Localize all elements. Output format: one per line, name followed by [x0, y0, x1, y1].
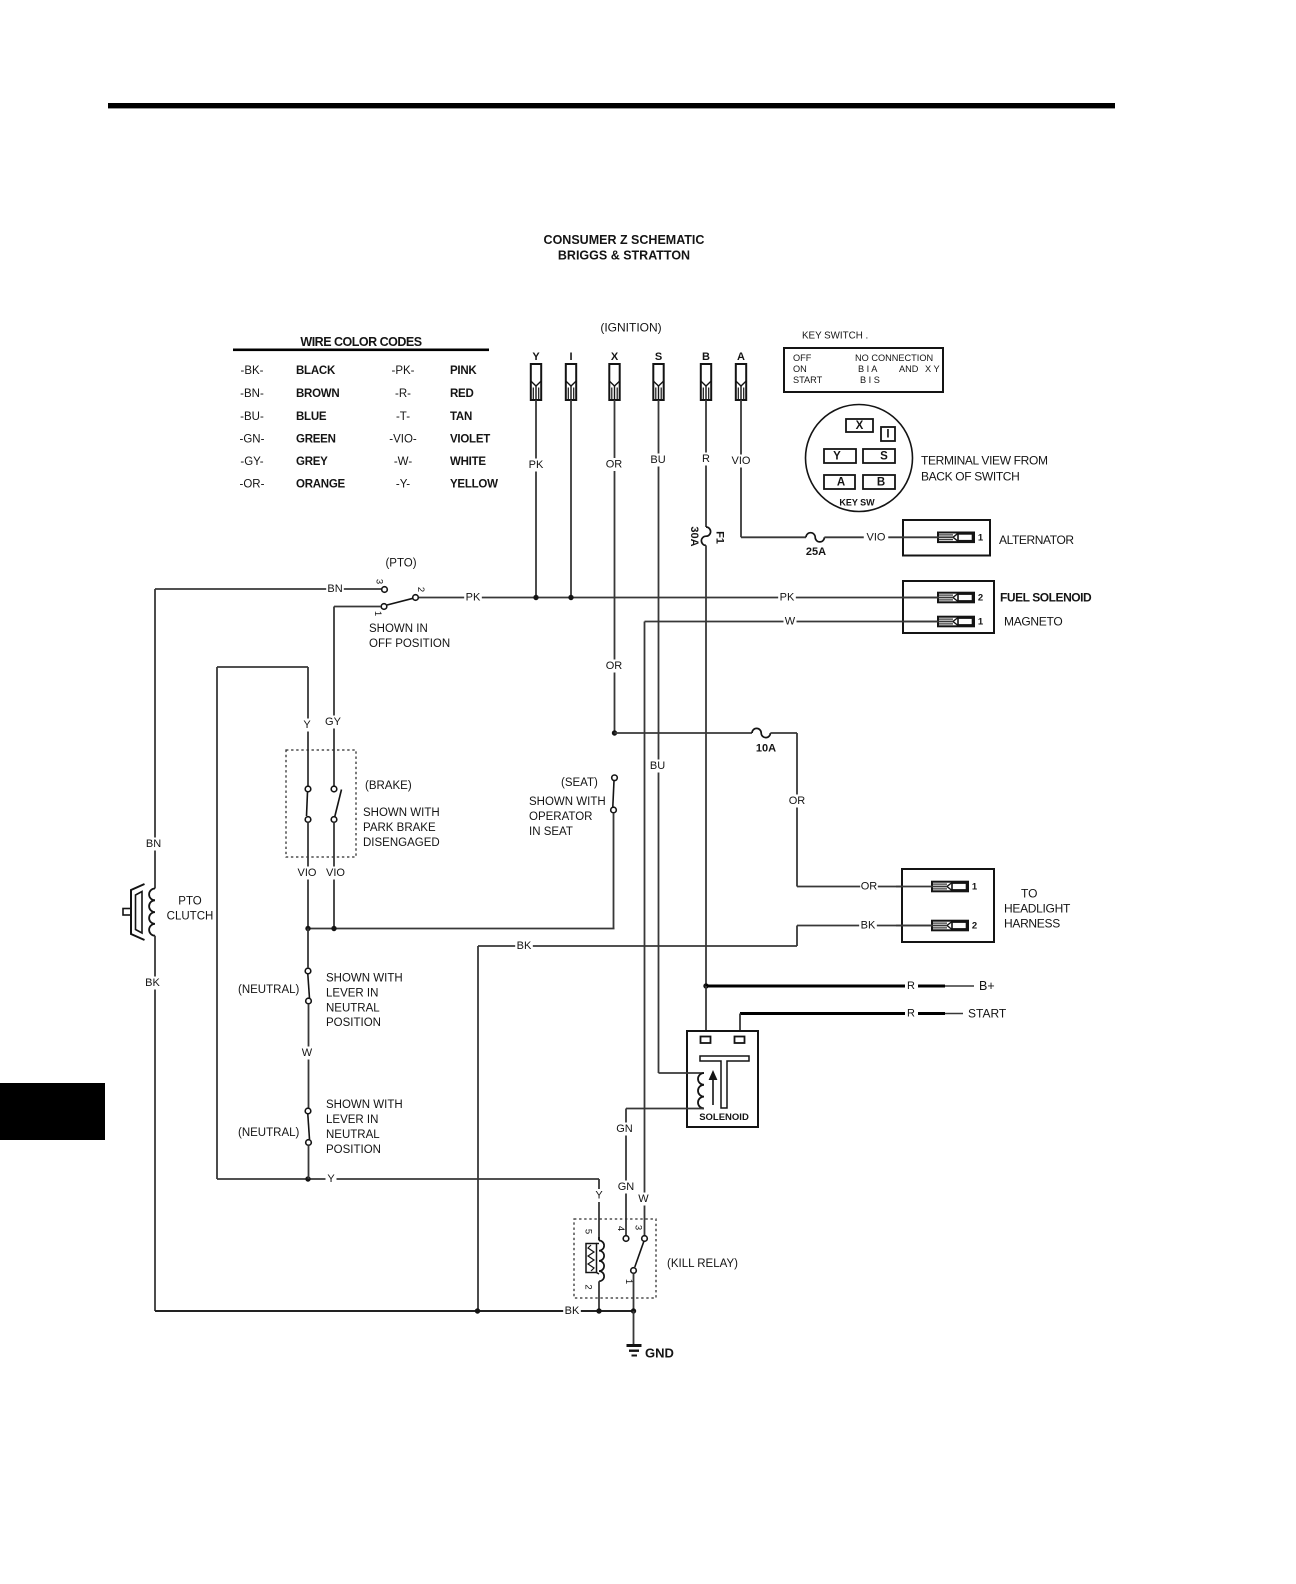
svg-text:B+: B+	[979, 979, 995, 993]
junction dot BK / kill relay switch	[631, 1308, 636, 1313]
junction dot OR branch	[612, 730, 617, 735]
svg-text:(KILL RELAY): (KILL RELAY)	[667, 1258, 738, 1270]
svg-text:10A: 10A	[756, 743, 776, 755]
wire BK riser down to bottom	[477, 946, 479, 1311]
key switch terminal view circle	[806, 405, 913, 512]
svg-text:START: START	[968, 1007, 1007, 1021]
key switch position table	[784, 348, 943, 392]
kill relay switch	[623, 1225, 647, 1284]
svg-text:BRIGGS & STRATTON: BRIGGS & STRATTON	[558, 249, 690, 263]
PTO clutch armature	[123, 884, 145, 940]
svg-text:LEVER IN: LEVER IN	[326, 988, 378, 1000]
legend row -BK- BLACK / -PK- PINK	[241, 365, 478, 377]
svg-text:I: I	[569, 351, 572, 363]
kill relay dotted box	[574, 1219, 656, 1298]
label TO HEADLIGHT HARNESS	[1004, 887, 1071, 931]
svg-text:2: 2	[415, 587, 426, 592]
label KEY SWITCH	[802, 331, 868, 342]
svg-text:BN: BN	[146, 838, 161, 850]
svg-text:BK: BK	[145, 977, 160, 989]
svg-text:BLACK: BLACK	[296, 365, 336, 377]
label (NEUTRAL) upper	[238, 984, 300, 996]
label (NEUTRAL) lower	[238, 1127, 300, 1139]
svg-text:Y: Y	[327, 1173, 335, 1185]
svg-text:SHOWN WITH: SHOWN WITH	[326, 1099, 403, 1111]
svg-text:LEVER IN: LEVER IN	[326, 1114, 378, 1126]
svg-text:VIO: VIO	[732, 455, 751, 467]
svg-text:-OR-: -OR-	[240, 479, 265, 491]
svg-text:S: S	[655, 351, 662, 363]
wire OR from fuse 10A to corner	[770, 732, 797, 734]
legend row -GN- GREEN / -VIO- VIOLET	[240, 434, 491, 446]
wire VIO junction horizontal	[308, 928, 615, 930]
svg-text:MAGNETO: MAGNETO	[1004, 615, 1062, 629]
svg-text:BU: BU	[650, 454, 665, 466]
magneto terminal 1	[902, 617, 984, 628]
wire OR into headlight terminal 1	[797, 880, 932, 893]
kill relay coil	[583, 1229, 605, 1311]
svg-text:NO CONNECTION: NO CONNECTION	[855, 353, 933, 363]
svg-text:TAN: TAN	[450, 411, 472, 423]
junction dot Y / neutral chain	[305, 1176, 310, 1181]
svg-text:IN SEAT: IN SEAT	[529, 826, 573, 838]
junction dot BK / kill relay coil	[596, 1308, 601, 1313]
svg-text:W: W	[785, 616, 796, 628]
svg-text:-W-: -W-	[394, 456, 412, 468]
svg-text:B I A: B I A	[858, 364, 878, 374]
svg-text:-GY-: -GY-	[240, 456, 263, 468]
svg-text:I: I	[886, 429, 889, 441]
svg-text:NEUTRAL: NEUTRAL	[326, 1003, 380, 1015]
svg-text:3: 3	[374, 579, 385, 584]
svg-text:-R-: -R-	[395, 388, 411, 400]
svg-text:OR: OR	[606, 459, 623, 471]
svg-text:TO: TO	[1021, 887, 1037, 901]
svg-text:(NEUTRAL): (NEUTRAL)	[238, 1127, 300, 1139]
wire START down to solenoid terminal S	[739, 1014, 741, 1037]
svg-text:5: 5	[583, 1229, 594, 1234]
svg-text:BROWN: BROWN	[296, 388, 339, 400]
svg-text:GREY: GREY	[296, 456, 328, 468]
headlight terminal 2	[896, 921, 977, 932]
terminal I	[881, 427, 895, 441]
wire GN from solenoid coil	[626, 1108, 704, 1110]
svg-text:2: 2	[972, 921, 977, 932]
title CONSUMER Z SCHEMATIC / BRIGGS &amp; STRATTON	[544, 233, 705, 263]
label PTO CLUTCH	[167, 896, 214, 923]
svg-text:PK: PK	[529, 459, 544, 471]
wire OR from connector X down	[605, 400, 623, 733]
label GND	[645, 1346, 674, 1361]
legend row -OR- ORANGE / -Y- YELLOW	[240, 479, 499, 491]
svg-text:BK: BK	[565, 1305, 580, 1317]
junction dot PK / connector Y	[533, 595, 538, 600]
svg-text:OFF: OFF	[793, 353, 812, 363]
label SOLENOID	[699, 1112, 749, 1123]
wire VIO from fuse to alternator	[824, 531, 938, 544]
svg-text:GN: GN	[616, 1123, 633, 1135]
svg-text:CONSUMER Z SCHEMATIC: CONSUMER Z SCHEMATIC	[544, 233, 705, 247]
label TERMINAL VIEW FROM BACK OF SWITCH	[921, 454, 1048, 484]
kill relay pin 4	[615, 1226, 629, 1241]
svg-text:1: 1	[623, 1279, 634, 1284]
wire Y loop left riser	[216, 667, 218, 1179]
wire BK corner down	[796, 926, 798, 947]
label SHOWN WITH LEVER IN NEUTRAL POSITION lower	[326, 1099, 403, 1156]
svg-text:3: 3	[633, 1225, 644, 1230]
brake switch right pole	[331, 786, 341, 822]
svg-text:W: W	[638, 1193, 649, 1205]
wire VIO horizontal to fuse 25A	[741, 536, 806, 538]
svg-text:SHOWN WITH: SHOWN WITH	[363, 807, 440, 819]
label (KILL RELAY)	[667, 1258, 738, 1270]
junction dot PK / connector I	[568, 595, 573, 600]
PTO clutch coil	[149, 888, 155, 935]
wire R to B+ terminal	[706, 980, 974, 992]
wire BK from headlight terminal 2	[797, 919, 932, 932]
svg-text:GND: GND	[645, 1346, 674, 1361]
svg-text:START: START	[793, 375, 823, 385]
svg-text:BN: BN	[327, 583, 342, 595]
svg-text:RED: RED	[450, 388, 474, 400]
wire from connector I down	[570, 400, 572, 598]
svg-text:-VIO-: -VIO-	[389, 434, 417, 446]
headlight harness connector box	[902, 869, 994, 942]
svg-text:R: R	[702, 453, 710, 465]
terminal X	[846, 419, 873, 432]
wire R from connector B down to fuse	[700, 400, 712, 527]
svg-text:X: X	[611, 351, 619, 363]
label START	[968, 1007, 1007, 1021]
svg-text:WHITE: WHITE	[450, 456, 486, 468]
label B+	[979, 979, 995, 993]
junction dot BK / headlight riser	[475, 1308, 480, 1313]
wire to ground	[633, 1311, 635, 1345]
wire GY down to brake switch	[324, 607, 342, 787]
svg-text:OPERATOR: OPERATOR	[529, 811, 592, 823]
svg-text:VIO: VIO	[326, 867, 345, 879]
terminal Y	[824, 449, 856, 463]
legend row -BU- BLUE / -T- TAN	[240, 411, 472, 423]
svg-text:2: 2	[583, 1284, 594, 1289]
svg-text:(BRAKE): (BRAKE)	[365, 780, 412, 792]
label SHOWN WITH PARK BRAKE DISENGAGED	[363, 807, 440, 849]
svg-text:SHOWN WITH: SHOWN WITH	[529, 796, 606, 808]
wire OR to fuse 10A	[615, 732, 753, 734]
svg-text:ON: ON	[793, 364, 807, 374]
svg-text:POSITION: POSITION	[326, 1144, 381, 1156]
svg-text:HEADLIGHT: HEADLIGHT	[1004, 902, 1071, 916]
wire OR down to headlight harness	[788, 733, 806, 887]
svg-text:Y: Y	[833, 451, 841, 463]
wire from kill relay pin 1 to BK	[633, 1273, 635, 1311]
solenoid terminal B	[701, 1037, 711, 1044]
svg-text:B I S: B I S	[860, 375, 880, 385]
wire from PTO switch pin 1 to GY riser	[334, 606, 381, 608]
header (IGNITION)	[600, 321, 661, 335]
svg-text:4: 4	[615, 1226, 626, 1231]
seat switch	[611, 775, 618, 813]
wire from neutral switch 1 up	[307, 929, 309, 969]
svg-text:SOLENOID: SOLENOID	[699, 1112, 749, 1123]
legend: WIRE COLOR CODES header	[233, 335, 489, 351]
wire Y loop top	[217, 666, 308, 668]
wire Y down to kill relay pin 5	[594, 1179, 605, 1240]
PTO switch	[372, 579, 426, 616]
svg-text:BK: BK	[861, 920, 876, 932]
ignition connector X	[609, 351, 619, 400]
ground symbol	[627, 1344, 642, 1357]
wire W between neutral switches	[301, 1004, 314, 1109]
svg-text:R: R	[907, 980, 915, 992]
label SHOWN IN OFF POSITION	[369, 623, 450, 650]
wire BU into solenoid coil	[659, 1072, 705, 1074]
legend row -BN- BROWN / -R- RED	[240, 388, 473, 400]
solenoid terminal S	[735, 1037, 745, 1044]
svg-text:WIRE COLOR CODES: WIRE COLOR CODES	[300, 335, 421, 349]
wire BK bottom horizontal	[155, 1305, 634, 1318]
svg-text:YELLOW: YELLOW	[450, 479, 498, 491]
svg-text:Y: Y	[595, 1190, 603, 1202]
alternator terminal 1	[902, 532, 984, 543]
svg-text:SHOWN WITH: SHOWN WITH	[326, 973, 403, 985]
neutral switch 1	[305, 968, 311, 1004]
label (PTO)	[385, 558, 416, 570]
solenoid T contact bar	[700, 1056, 749, 1108]
svg-text:-PK-: -PK-	[392, 365, 415, 377]
svg-text:PARK BRAKE: PARK BRAKE	[363, 822, 436, 834]
svg-text:OR: OR	[789, 795, 806, 807]
solenoid coil	[698, 1073, 704, 1108]
svg-text:GY: GY	[325, 716, 342, 728]
svg-text:KEY SWITCH .: KEY SWITCH .	[802, 331, 868, 342]
svg-text:30A: 30A	[688, 526, 700, 546]
ignition connector S	[653, 351, 663, 400]
junction dot VIO left	[305, 926, 310, 931]
wire from neutral switch 2 to Y bottom	[308, 1145, 310, 1179]
ignition connector A	[736, 351, 746, 400]
svg-text:KEY SW: KEY SW	[839, 498, 875, 508]
label ALTERNATOR	[999, 533, 1074, 547]
svg-text:B: B	[702, 351, 710, 363]
wire Y bottom horizontal	[217, 1173, 599, 1186]
svg-text:PK: PK	[466, 592, 481, 604]
svg-text:PK: PK	[780, 592, 795, 604]
label SHOWN WITH LEVER IN NEUTRAL POSITION upper	[326, 973, 403, 1030]
svg-text:(SEAT): (SEAT)	[561, 777, 598, 789]
legend row -GY- GREY / -W- WHITE	[240, 456, 486, 468]
svg-text:DISENGAGED: DISENGAGED	[363, 837, 440, 849]
svg-text:OR: OR	[606, 660, 623, 672]
svg-text:PTO: PTO	[178, 896, 201, 908]
ignition connector I	[566, 351, 576, 400]
wire R down to solenoid terminal B	[705, 986, 707, 1036]
wire from seat switch down	[613, 813, 615, 929]
svg-text:R: R	[907, 1008, 915, 1020]
svg-text:A: A	[837, 477, 845, 489]
svg-text:X: X	[856, 420, 864, 432]
svg-text:VIOLET: VIOLET	[450, 434, 490, 446]
svg-text:-BU-: -BU-	[240, 411, 264, 423]
svg-text:(IGNITION): (IGNITION)	[600, 321, 661, 335]
solenoid box	[687, 1031, 758, 1127]
svg-text:-GN-: -GN-	[240, 434, 265, 446]
label FUEL SOLENOID	[1000, 591, 1092, 605]
svg-text:VIO: VIO	[298, 867, 317, 879]
svg-text:-T-: -T-	[396, 411, 410, 423]
svg-text:1: 1	[978, 617, 984, 628]
svg-text:25A: 25A	[806, 546, 826, 558]
svg-text:GREEN: GREEN	[296, 434, 336, 446]
svg-text:SHOWN IN: SHOWN IN	[369, 623, 428, 635]
svg-text:1: 1	[972, 882, 978, 893]
svg-text:1: 1	[978, 532, 984, 543]
wire PK horizontal from PTO switch to fuel solenoid	[418, 591, 938, 604]
svg-text:X Y: X Y	[925, 364, 940, 374]
svg-text:B: B	[877, 477, 885, 489]
wire PK from connector Y down	[527, 400, 545, 598]
wire BN from left riser to PTO switch	[155, 583, 382, 596]
alternator connector box	[903, 520, 990, 556]
junction dot R / B+	[703, 983, 708, 988]
terminal B	[863, 475, 895, 489]
svg-text:(NEUTRAL): (NEUTRAL)	[238, 984, 300, 996]
fuel solenoid / magneto connector box	[903, 581, 994, 633]
svg-text:ALTERNATOR: ALTERNATOR	[999, 533, 1074, 547]
svg-text:1: 1	[372, 611, 383, 616]
svg-text:GN: GN	[618, 1181, 635, 1193]
svg-text:Y: Y	[303, 719, 311, 731]
kill relay coil resistor	[586, 1244, 597, 1273]
wire BU from connector S down	[649, 400, 667, 1073]
svg-text:AND: AND	[899, 364, 919, 374]
brake switch left pole	[305, 786, 311, 822]
left margin black block	[0, 1083, 105, 1140]
svg-text:CLUTCH: CLUTCH	[167, 911, 214, 923]
svg-text:ORANGE: ORANGE	[296, 479, 346, 491]
svg-text:OR: OR	[861, 881, 878, 893]
wire GN down to kill relay pin 4	[616, 1109, 635, 1236]
svg-text:BACK OF SWITCH: BACK OF SWITCH	[921, 470, 1019, 484]
headlight terminal 1	[896, 882, 978, 893]
svg-text:BK: BK	[517, 940, 532, 952]
fuse 25A	[806, 533, 826, 558]
label SHOWN WITH OPERATOR IN SEAT	[529, 796, 606, 838]
svg-text:-BK-: -BK-	[241, 365, 264, 377]
wire VIO from brake left pole	[295, 822, 319, 928]
fuel solenoid terminal 2	[902, 593, 983, 604]
fuse 10A	[752, 728, 776, 754]
wire VIO from connector A down	[729, 400, 753, 537]
svg-text:BU: BU	[650, 760, 665, 772]
terminal S	[863, 449, 895, 463]
label MAGNETO	[1004, 615, 1062, 629]
page top rule	[108, 103, 1115, 108]
svg-text:PINK: PINK	[450, 365, 477, 377]
svg-text:HARNESS: HARNESS	[1004, 917, 1060, 931]
label (SEAT)	[561, 777, 598, 789]
svg-text:TERMINAL VIEW FROM: TERMINAL VIEW FROM	[921, 454, 1048, 468]
terminal A	[824, 475, 855, 489]
ignition connector Y	[531, 351, 541, 400]
svg-text:OFF POSITION: OFF POSITION	[369, 638, 450, 650]
wire R to START terminal	[740, 1008, 963, 1020]
svg-text:BLUE: BLUE	[296, 411, 327, 423]
svg-text:NEUTRAL: NEUTRAL	[326, 1129, 380, 1141]
svg-text:A: A	[737, 351, 745, 363]
svg-text:Y: Y	[532, 351, 540, 363]
wire BK left riser	[144, 936, 162, 1311]
wire VIO from brake right pole	[323, 822, 347, 928]
svg-text:(PTO): (PTO)	[385, 558, 416, 570]
wire BN left riser	[145, 589, 163, 889]
solenoid plunger arrow	[709, 1070, 718, 1105]
svg-text:-Y-: -Y-	[396, 479, 410, 491]
neutral switch 2	[305, 1108, 311, 1145]
svg-text:F1: F1	[714, 531, 726, 544]
svg-text:-BN-: -BN-	[240, 388, 264, 400]
fuse F1 30A	[688, 526, 726, 546]
svg-text:FUEL SOLENOID: FUEL SOLENOID	[1000, 591, 1092, 605]
junction dot VIO right	[331, 926, 336, 931]
wire BK horizontal to left riser	[478, 940, 797, 953]
svg-text:S: S	[880, 451, 888, 463]
ignition connector B	[701, 351, 711, 400]
label KEY SW	[839, 498, 875, 508]
svg-text:W: W	[302, 1047, 313, 1059]
svg-text:POSITION: POSITION	[326, 1017, 381, 1029]
svg-text:VIO: VIO	[867, 531, 886, 543]
svg-text:2: 2	[978, 593, 983, 604]
wire Y down to brake switch	[302, 667, 313, 786]
brake switch dotted box	[286, 750, 356, 857]
wire R from fuse F1 down to solenoid junction	[705, 545, 707, 986]
wire W from magneto to kill relay	[637, 615, 938, 1236]
label (BRAKE)	[365, 780, 412, 792]
